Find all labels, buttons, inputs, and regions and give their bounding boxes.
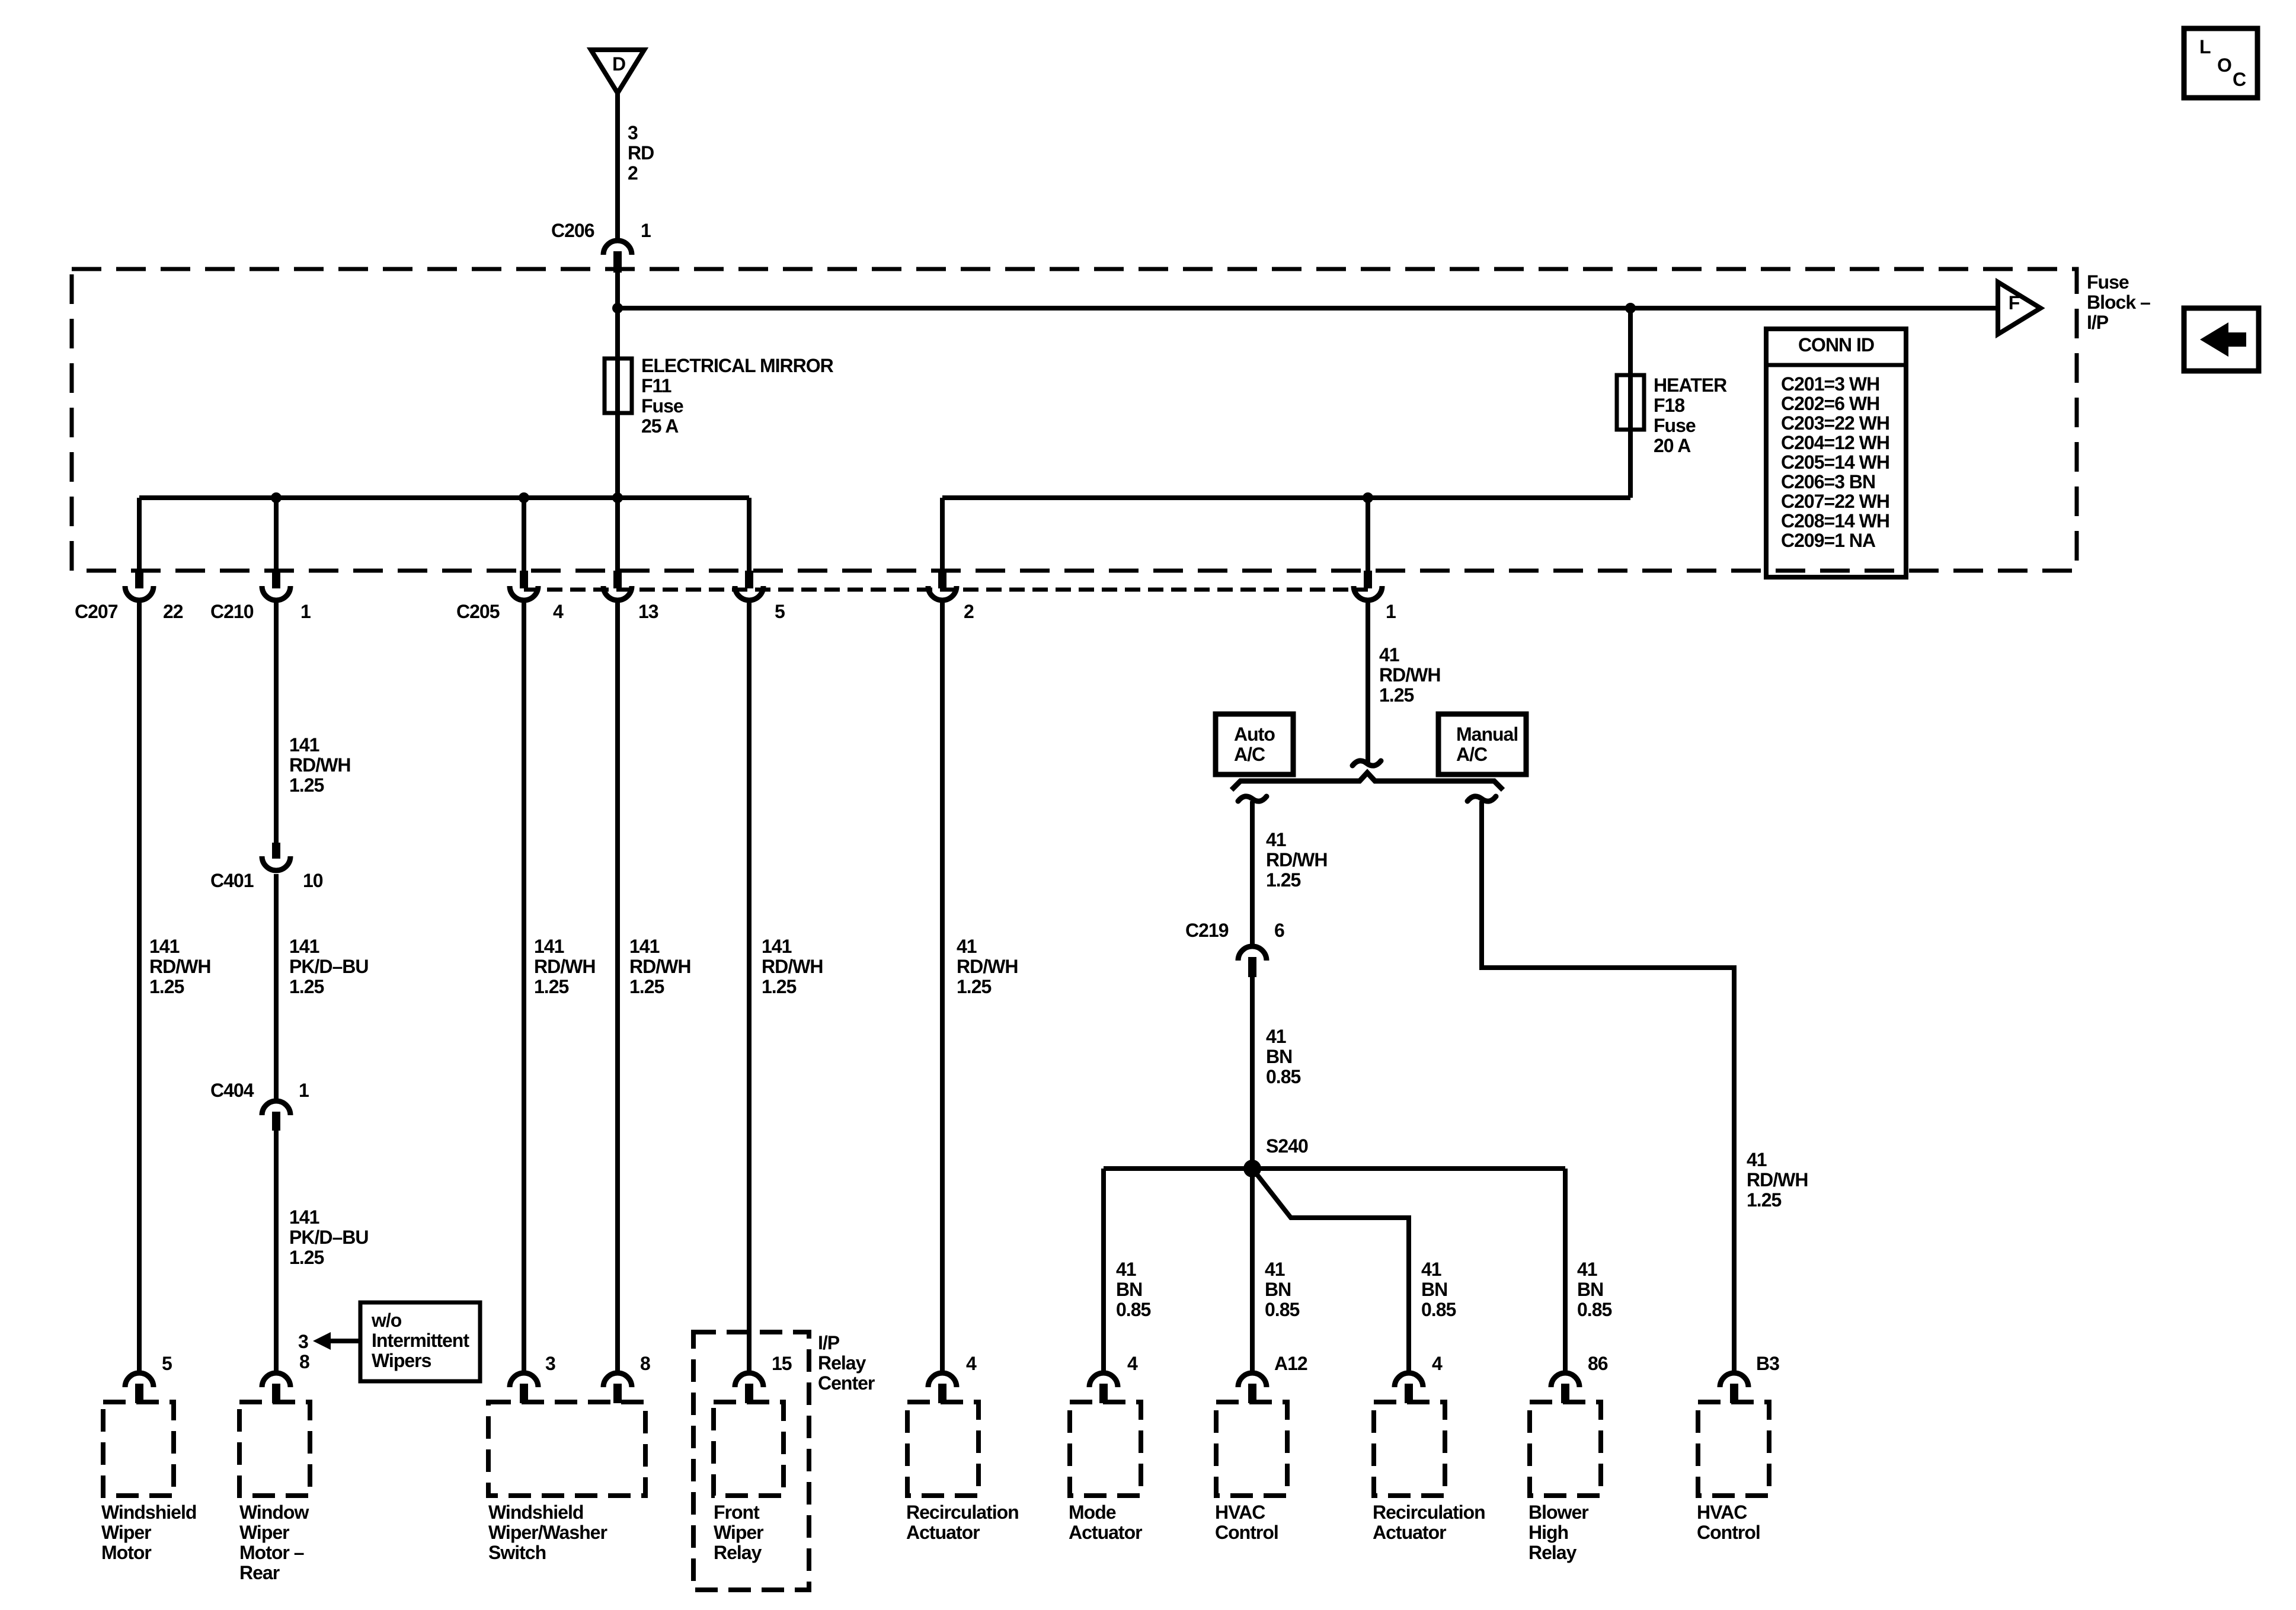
svg-text:Relay: Relay [1528, 1542, 1577, 1563]
svg-text:41: 41 [1747, 1149, 1767, 1170]
svg-text:1.25: 1.25 [534, 976, 568, 997]
svg-text:w/o: w/o [371, 1310, 402, 1331]
svg-text:0.85: 0.85 [1421, 1299, 1456, 1320]
svg-text:Switch: Switch [488, 1542, 546, 1563]
svg-text:Wiper/Washer: Wiper/Washer [488, 1522, 607, 1543]
svg-text:A/C: A/C [1234, 744, 1265, 765]
svg-text:1: 1 [641, 220, 651, 241]
svg-text:10: 10 [303, 870, 323, 891]
svg-text:Wiper: Wiper [101, 1522, 151, 1543]
svg-text:41: 41 [1577, 1259, 1597, 1280]
svg-text:C206: C206 [551, 220, 594, 241]
svg-text:C207=22 WH: C207=22 WH [1781, 491, 1889, 512]
svg-text:1: 1 [1386, 601, 1396, 622]
svg-text:RD/WH: RD/WH [534, 956, 595, 977]
svg-text:C208=14 WH: C208=14 WH [1781, 510, 1889, 532]
svg-text:3: 3 [545, 1353, 555, 1374]
svg-text:F11: F11 [641, 375, 671, 396]
svg-text:0.85: 0.85 [1577, 1299, 1611, 1320]
svg-text:O: O [2217, 55, 2231, 76]
svg-text:Rear: Rear [239, 1562, 280, 1583]
svg-text:PK/D–BU: PK/D–BU [289, 1227, 368, 1248]
svg-text:13: 13 [638, 601, 658, 622]
svg-text:F18: F18 [1654, 395, 1684, 416]
svg-text:B3: B3 [1756, 1353, 1779, 1374]
svg-text:C401: C401 [210, 870, 254, 891]
svg-text:RD/WH: RD/WH [149, 956, 210, 977]
svg-text:22: 22 [163, 601, 183, 622]
svg-text:C404: C404 [210, 1080, 254, 1101]
svg-text:Auto: Auto [1234, 724, 1275, 745]
svg-text:D: D [612, 53, 625, 75]
svg-text:141: 141 [289, 734, 319, 756]
svg-text:4: 4 [553, 601, 564, 622]
svg-text:C219: C219 [1185, 920, 1229, 941]
svg-text:RD: RD [628, 142, 654, 164]
svg-text:5: 5 [162, 1353, 172, 1374]
svg-text:RD/WH: RD/WH [629, 956, 690, 977]
svg-text:1.25: 1.25 [629, 976, 664, 997]
svg-text:Wiper: Wiper [714, 1522, 763, 1543]
svg-text:L: L [2199, 36, 2211, 57]
svg-text:PK/D–BU: PK/D–BU [289, 956, 368, 977]
svg-text:Windshield: Windshield [488, 1502, 583, 1523]
svg-text:3: 3 [298, 1331, 308, 1352]
svg-text:Fuse: Fuse [1654, 415, 1696, 436]
svg-text:141: 141 [762, 936, 792, 957]
svg-text:6: 6 [1274, 920, 1284, 941]
svg-text:BN: BN [1265, 1279, 1291, 1300]
svg-text:1.25: 1.25 [149, 976, 184, 997]
svg-text:RD/WH: RD/WH [957, 956, 1018, 977]
svg-text:Blower: Blower [1528, 1502, 1588, 1523]
svg-text:0.85: 0.85 [1265, 1299, 1299, 1320]
svg-text:RD/WH: RD/WH [1379, 664, 1440, 686]
svg-text:Actuator: Actuator [1373, 1522, 1446, 1543]
svg-text:I/P: I/P [2087, 312, 2109, 333]
svg-text:8: 8 [299, 1351, 309, 1372]
svg-text:41: 41 [1379, 644, 1399, 665]
svg-text:4: 4 [1432, 1353, 1443, 1374]
svg-text:Intermittent: Intermittent [372, 1330, 469, 1351]
svg-text:Relay: Relay [714, 1542, 762, 1563]
svg-text:1.25: 1.25 [957, 976, 991, 997]
svg-text:1: 1 [299, 1080, 309, 1101]
svg-text:4: 4 [1127, 1353, 1138, 1374]
svg-text:Motor –: Motor – [239, 1542, 304, 1563]
svg-text:3: 3 [628, 122, 638, 143]
svg-text:141: 141 [534, 936, 564, 957]
svg-text:Actuator: Actuator [1069, 1522, 1142, 1543]
svg-text:ELECTRICAL MIRROR: ELECTRICAL MIRROR [641, 355, 834, 376]
svg-text:Manual: Manual [1456, 724, 1518, 745]
svg-text:41: 41 [1266, 1026, 1286, 1047]
svg-text:Windshield: Windshield [101, 1502, 196, 1523]
svg-text:86: 86 [1588, 1353, 1608, 1374]
svg-text:C202=6 WH: C202=6 WH [1781, 393, 1879, 414]
svg-text:Control: Control [1697, 1522, 1760, 1543]
svg-text:15: 15 [772, 1353, 792, 1374]
svg-text:Front: Front [714, 1502, 760, 1523]
svg-text:BN: BN [1421, 1279, 1447, 1300]
svg-text:141: 141 [289, 936, 319, 957]
svg-text:F: F [2009, 292, 2020, 313]
svg-text:141: 141 [149, 936, 180, 957]
svg-text:C203=22 WH: C203=22 WH [1781, 412, 1889, 434]
svg-text:Window: Window [239, 1502, 309, 1523]
svg-text:BN: BN [1116, 1279, 1142, 1300]
svg-text:Fuse: Fuse [641, 395, 683, 417]
svg-text:C: C [2233, 69, 2246, 90]
svg-text:BN: BN [1577, 1279, 1603, 1300]
svg-text:141: 141 [629, 936, 660, 957]
svg-text:1.25: 1.25 [1747, 1189, 1781, 1211]
svg-text:20 A: 20 A [1654, 435, 1691, 456]
svg-text:C201=3 WH: C201=3 WH [1781, 373, 1879, 395]
svg-text:41: 41 [1266, 829, 1286, 850]
svg-text:I/P: I/P [818, 1332, 840, 1353]
svg-text:BN: BN [1266, 1046, 1292, 1067]
svg-text:C210: C210 [210, 601, 254, 622]
svg-text:41: 41 [957, 936, 977, 957]
svg-text:C204=12 WH: C204=12 WH [1781, 432, 1889, 453]
svg-text:Block –: Block – [2087, 292, 2150, 313]
svg-text:0.85: 0.85 [1116, 1299, 1150, 1320]
svg-text:RD/WH: RD/WH [1747, 1169, 1808, 1190]
svg-text:41: 41 [1265, 1259, 1285, 1280]
svg-text:HVAC: HVAC [1215, 1502, 1265, 1523]
svg-text:RD/WH: RD/WH [1266, 849, 1327, 870]
svg-text:Wipers: Wipers [372, 1350, 431, 1371]
svg-text:Recirculation: Recirculation [1373, 1502, 1485, 1523]
svg-text:Recirculation: Recirculation [906, 1502, 1019, 1523]
svg-text:41: 41 [1421, 1259, 1441, 1280]
svg-text:Motor: Motor [101, 1542, 151, 1563]
svg-text:HEATER: HEATER [1654, 375, 1727, 396]
svg-text:RD/WH: RD/WH [289, 754, 350, 776]
svg-text:RD/WH: RD/WH [762, 956, 823, 977]
svg-text:A/C: A/C [1456, 744, 1488, 765]
svg-text:C207: C207 [75, 601, 118, 622]
svg-text:Center: Center [818, 1372, 875, 1394]
svg-text:C206=3 BN: C206=3 BN [1781, 471, 1875, 492]
svg-text:141: 141 [289, 1206, 319, 1228]
svg-text:CONN ID: CONN ID [1798, 334, 1874, 356]
svg-text:Fuse: Fuse [2087, 271, 2129, 293]
svg-text:Control: Control [1215, 1522, 1278, 1543]
svg-text:Mode: Mode [1069, 1502, 1116, 1523]
svg-text:1.25: 1.25 [289, 774, 324, 796]
svg-text:C205: C205 [456, 601, 500, 622]
svg-text:1.25: 1.25 [1266, 869, 1300, 891]
svg-text:1.25: 1.25 [289, 976, 324, 997]
svg-text:A12: A12 [1274, 1353, 1307, 1374]
svg-text:8: 8 [640, 1353, 650, 1374]
svg-text:S240: S240 [1266, 1135, 1308, 1157]
svg-text:1.25: 1.25 [289, 1247, 324, 1268]
svg-text:2: 2 [964, 601, 974, 622]
svg-text:5: 5 [775, 601, 785, 622]
svg-text:0.85: 0.85 [1266, 1066, 1300, 1087]
svg-text:Actuator: Actuator [906, 1522, 980, 1543]
svg-text:1.25: 1.25 [762, 976, 796, 997]
svg-text:C209=1 NA: C209=1 NA [1781, 530, 1876, 551]
svg-text:41: 41 [1116, 1259, 1136, 1280]
svg-text:2: 2 [628, 162, 638, 184]
svg-text:HVAC: HVAC [1697, 1502, 1747, 1523]
svg-text:Wiper: Wiper [239, 1522, 289, 1543]
svg-text:C205=14 WH: C205=14 WH [1781, 452, 1889, 473]
svg-text:25 A: 25 A [641, 415, 679, 437]
svg-text:High: High [1528, 1522, 1568, 1543]
svg-text:Relay: Relay [818, 1352, 866, 1374]
svg-text:1: 1 [300, 601, 311, 622]
svg-text:1.25: 1.25 [1379, 684, 1414, 706]
svg-text:4: 4 [966, 1353, 977, 1374]
